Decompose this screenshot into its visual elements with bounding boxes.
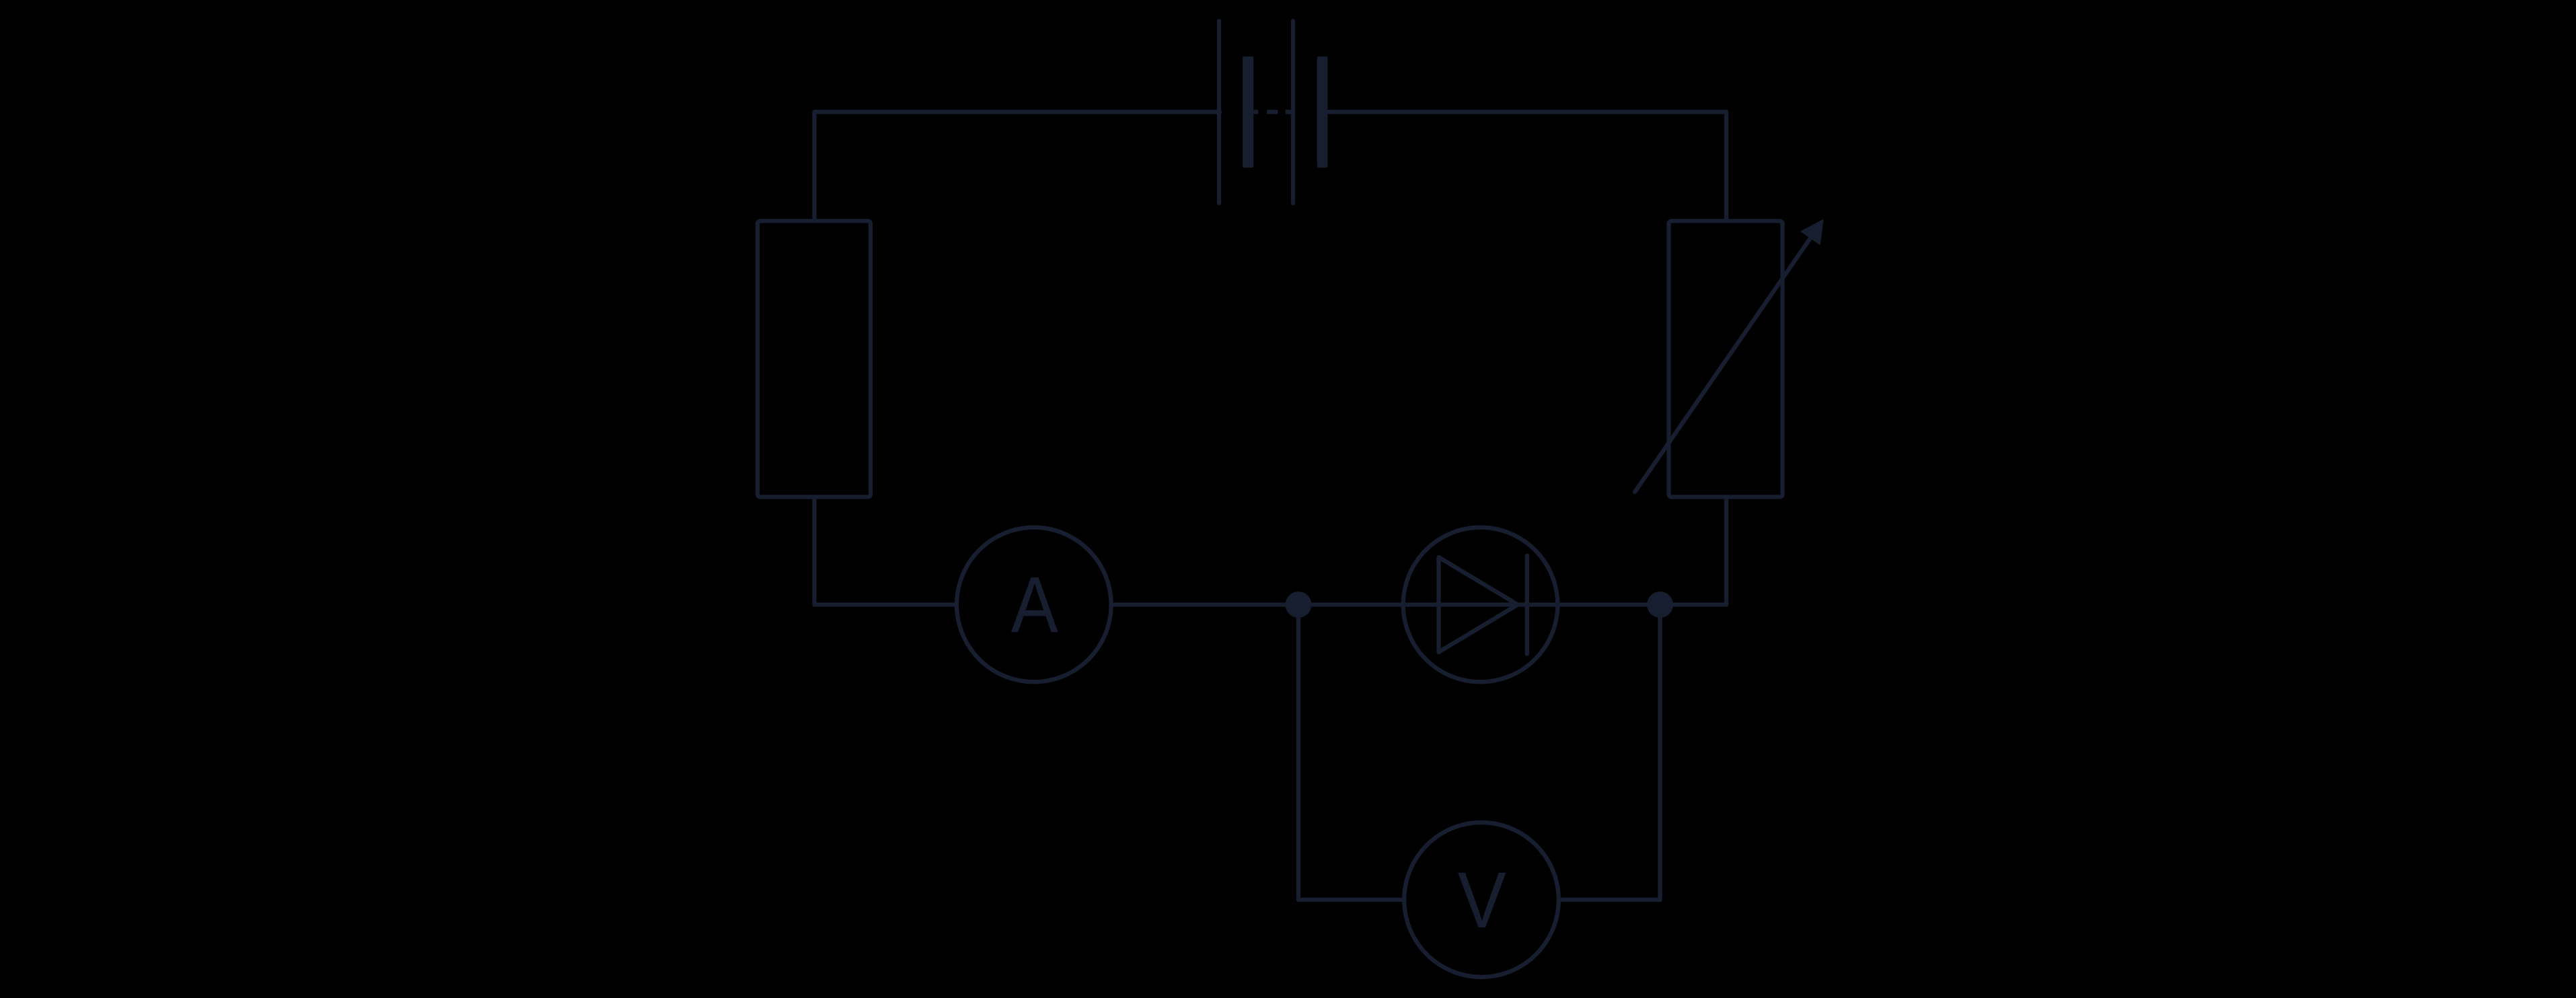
- svg-text:A: A: [1011, 560, 1059, 649]
- svg-text:V: V: [1458, 856, 1507, 945]
